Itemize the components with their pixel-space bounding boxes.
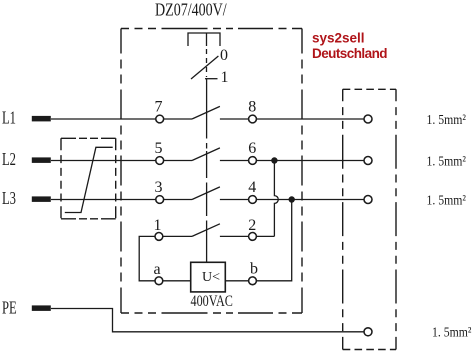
vertical wire node4 down to terminal b — [256, 200, 292, 281]
terminal 2 — [249, 233, 257, 241]
svg-text:L2: L2 — [2, 150, 16, 170]
L3 terminal bar — [32, 196, 51, 202]
wire terminal 3 to contact — [164, 199, 192, 201]
svg-text:5: 5 — [155, 140, 163, 157]
svg-text:PE: PE — [2, 298, 17, 318]
label 5 — [155, 140, 163, 157]
svg-text:a: a — [153, 261, 160, 278]
svg-text:b: b — [250, 261, 258, 278]
wire contact to terminal 2 — [220, 235, 249, 237]
wire terminal 7 to contact — [164, 118, 192, 120]
L1 terminal bar — [32, 116, 51, 122]
contact blade pole 5-6 — [192, 148, 220, 161]
label 7 — [155, 99, 163, 116]
junction node on wire 4 — [289, 196, 295, 202]
svg-text:1. 5mm²: 1. 5mm² — [432, 324, 472, 340]
svg-text:0: 0 — [220, 47, 228, 64]
svg-text:1. 5mm²: 1. 5mm² — [427, 192, 467, 208]
svg-text:7: 7 — [155, 99, 163, 116]
terminal a — [155, 277, 163, 285]
terminal 8 — [249, 115, 257, 123]
right block terminal L1 — [364, 115, 372, 123]
svg-text:3: 3 — [155, 179, 163, 196]
svg-text:sys2sell: sys2sell — [312, 31, 365, 46]
svg-text:400VAC: 400VAC — [191, 292, 233, 310]
right terminal block (dashed box) — [343, 89, 396, 349]
svg-text:6: 6 — [248, 140, 256, 157]
vertical wire node6 to wire2 with hop over wire4 — [274, 161, 278, 237]
PE wire to right block — [51, 309, 364, 332]
L1 label — [2, 108, 16, 128]
label a — [153, 261, 160, 278]
wire terminal 1 down to terminal a — [139, 236, 155, 280]
svg-text:L3: L3 — [2, 189, 16, 209]
trip unit box (dashed) — [61, 138, 116, 219]
label 2 — [248, 217, 256, 234]
contact blade pole 1-2 — [192, 224, 220, 237]
svg-text:8: 8 — [248, 99, 256, 116]
label 4 — [248, 179, 256, 196]
wire contact to terminal 8 — [220, 118, 249, 120]
label 6 — [248, 140, 256, 157]
svg-text:1. 5mm²: 1. 5mm² — [427, 153, 467, 169]
terminal 4 — [249, 196, 257, 204]
wire terminal 1 to contact — [163, 235, 192, 237]
wire size label 1.5mm2 (L2) — [427, 153, 467, 169]
trip characteristic symbol (zigzag) — [65, 147, 113, 212]
L2 label — [2, 150, 16, 170]
wire size label 1.5mm2 (L3) — [427, 192, 467, 208]
wire terminal 2 up to node on 6 — [257, 235, 275, 237]
PE label — [2, 298, 17, 318]
handle position 1 tick — [205, 78, 218, 80]
label 8 — [248, 99, 256, 116]
contact blade pole 7-8 — [192, 106, 220, 119]
label b — [250, 261, 258, 278]
svg-text:Deutschland: Deutschland — [312, 46, 387, 61]
svg-text:2: 2 — [248, 217, 256, 234]
terminal 1 — [155, 233, 163, 241]
coil rating label 400VAC — [191, 292, 233, 310]
wire terminal 8 to right block — [257, 118, 364, 120]
terminal 7 — [156, 115, 164, 123]
seller mark sys2sell Deutschland — [312, 31, 387, 62]
svg-text:DZ07/400V/: DZ07/400V/ — [155, 1, 227, 20]
L2 terminal bar — [32, 157, 51, 163]
L3 label — [2, 189, 16, 209]
svg-text:1. 5mm²: 1. 5mm² — [427, 111, 467, 127]
undervoltage release U< box — [191, 262, 226, 292]
label U< — [202, 270, 220, 285]
wire terminal a to U+ coil — [163, 280, 191, 282]
wire size label 1.5mm2 (L1) — [427, 111, 467, 127]
handle lever — [191, 56, 218, 79]
wire terminal 4 to right block — [257, 199, 364, 201]
label 1 — [221, 69, 229, 86]
PE terminal bar — [32, 305, 51, 311]
right block terminal PE — [364, 328, 372, 336]
terminal 6 — [249, 157, 257, 165]
wire contact to terminal 4 — [220, 199, 249, 201]
svg-text:1: 1 — [154, 217, 162, 234]
terminal b — [249, 277, 257, 285]
handle mechanism bracket — [188, 33, 220, 46]
wire terminal 6 to right block — [257, 160, 364, 162]
label 3 — [155, 179, 163, 196]
breaker model label DZ07/400V/ — [155, 1, 227, 20]
label 0 — [220, 47, 228, 64]
wire terminal 5 to contact — [164, 160, 192, 162]
wire contact to terminal 6 — [220, 160, 249, 162]
svg-text:4: 4 — [248, 179, 256, 196]
wire L2 to terminal 5 — [51, 160, 156, 162]
svg-text:L1: L1 — [2, 108, 16, 128]
wire size label 1.5mm2 (PE) — [432, 324, 472, 340]
contact blade pole 3-4 — [192, 187, 220, 200]
svg-text:1: 1 — [221, 69, 229, 86]
handle dashed axis — [206, 49, 208, 77]
wire U< coil to terminal b — [225, 280, 248, 282]
right block terminal L3 — [364, 196, 372, 204]
junction node on wire 6 — [271, 157, 277, 163]
trip bar (vertical linkage) — [206, 79, 208, 133]
svg-text:U<: U< — [202, 270, 220, 285]
terminal 5 — [156, 157, 164, 165]
terminal 3 — [156, 196, 164, 204]
wire L3 to terminal 3 — [51, 199, 156, 201]
wire L1 to terminal 7 — [51, 118, 156, 120]
label 1 (pole) — [154, 217, 162, 234]
right block terminal L2 — [364, 157, 372, 165]
breaker outline (main dashed box) — [121, 29, 302, 314]
